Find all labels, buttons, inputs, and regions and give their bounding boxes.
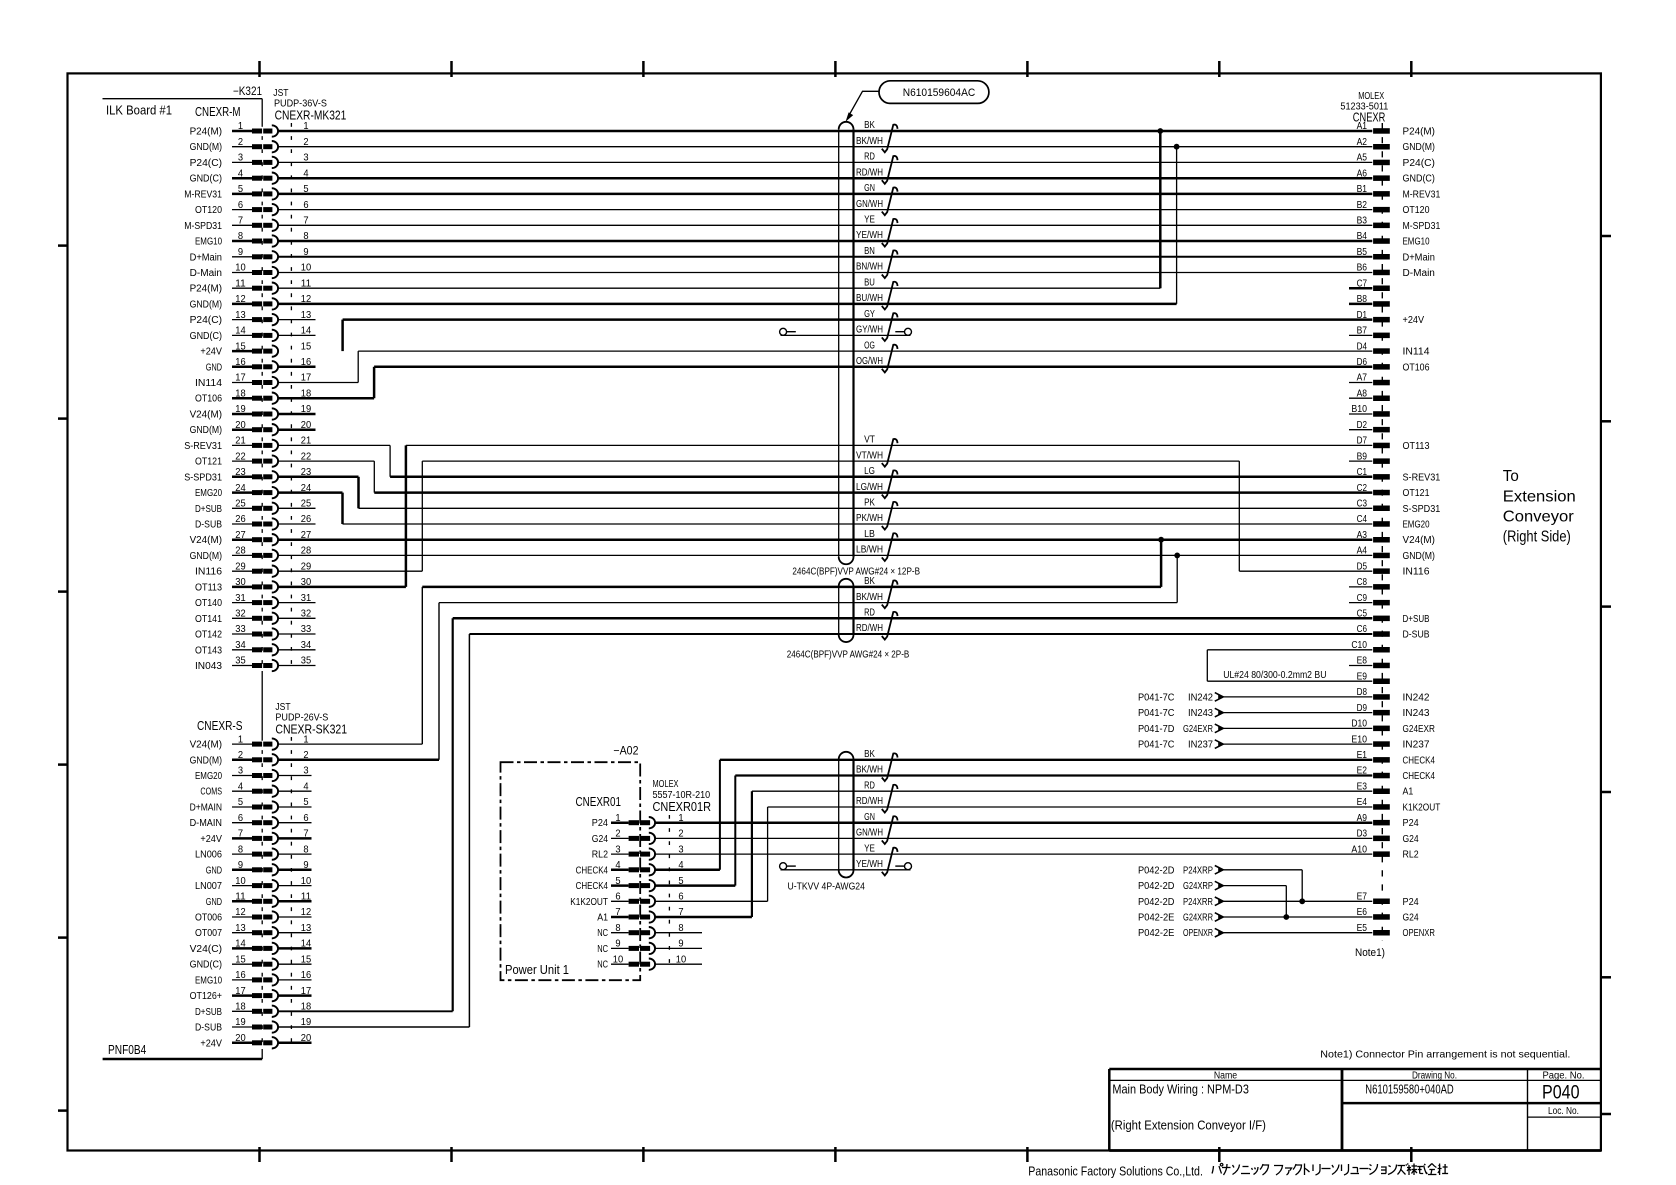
CNEXR-S pin 10 stub wire xyxy=(278,885,312,887)
wire GY +24V xyxy=(343,318,1373,321)
svg-text:LG/WH: LG/WH xyxy=(856,482,883,493)
riser CNEXR-S pin1 V24(M) to 2P BK row xyxy=(421,587,423,744)
svg-text:BU: BU xyxy=(864,277,875,288)
CNEXR-S pin 13 stub wire xyxy=(278,932,312,934)
svg-text:GND(M): GND(M) xyxy=(1403,142,1435,153)
svg-text:D+Main: D+Main xyxy=(190,252,222,263)
border tick marks xyxy=(258,61,261,77)
svg-text:IN243: IN243 xyxy=(1403,708,1430,719)
svg-text:COMS: COMS xyxy=(200,787,222,798)
twisted pair mark rows 27-28 xyxy=(882,533,898,561)
svg-text:UL#24 80/300-0.2mm2 BU: UL#24 80/300-0.2mm2 BU xyxy=(1223,670,1326,681)
svg-text:Power Unit 1: Power Unit 1 xyxy=(505,963,569,977)
twisted pair mark rows 32-33 xyxy=(882,612,898,640)
CNEXR01R pin 9 stub wire xyxy=(655,947,702,949)
CNEXR-S pin 4 stub wire xyxy=(278,790,312,792)
svg-text:RD/WH: RD/WH xyxy=(856,167,883,178)
CNEXR01R mating dashed line xyxy=(668,815,670,972)
wire G24EXR wire xyxy=(1224,727,1373,729)
wire RD(4P) A1 xyxy=(752,790,1372,792)
Power Unit 1 dash-dot box -A02 xyxy=(501,762,641,980)
svg-text:OT121: OT121 xyxy=(195,457,222,468)
svg-text:P041-7D: P041-7D xyxy=(1138,724,1174,735)
riser CHECK4 pin5 to 4P BK/WH row xyxy=(734,776,736,886)
svg-text:OG/WH: OG/WH xyxy=(856,356,883,367)
svg-text:BK: BK xyxy=(864,749,875,760)
wire RD/WH GND(C) xyxy=(278,177,1373,180)
svg-text:CHECK4: CHECK4 xyxy=(576,865,609,876)
svg-text:GND(M): GND(M) xyxy=(190,551,222,562)
CNEXR-S pin 9 stub wire xyxy=(278,869,312,872)
svg-text:P24(C): P24(C) xyxy=(190,315,222,326)
svg-text:Name: Name xyxy=(1214,1070,1238,1081)
svg-text:VT: VT xyxy=(864,435,875,446)
wire YE/WH EMG10 xyxy=(278,240,1373,243)
svg-text:EMG20: EMG20 xyxy=(1403,520,1430,531)
wire CNEXR01R pin6 K1K2OUT xyxy=(655,900,768,902)
svg-text:RD/WH: RD/WH xyxy=(856,796,883,807)
cable sheath 12P cable xyxy=(838,129,840,557)
svg-text:U-TKVV 4P-AWG24: U-TKVV 4P-AWG24 xyxy=(788,880,866,892)
wire C10 wire xyxy=(1207,649,1372,651)
CNEXR-M pin 31 stub wire xyxy=(278,602,316,604)
CNEXR-M pin 13 stub wire xyxy=(278,319,316,321)
svg-text:+24V: +24V xyxy=(200,1038,222,1049)
wire YE M-SPD31 xyxy=(278,224,1373,226)
svg-text:N610159604AC: N610159604AC xyxy=(903,87,976,99)
callout leader arrow xyxy=(848,91,879,117)
riser CNEXR-S pin19 D-SUB to 2P RD/WH row xyxy=(468,634,470,1027)
twisted pair mark rows 5-6 xyxy=(882,187,898,215)
wire CNEXR-S pin1 V24(M) xyxy=(278,743,423,745)
title block xyxy=(1109,1068,1601,1071)
svg-text:OT113: OT113 xyxy=(1403,441,1430,452)
junction dot GND(M) row2 xyxy=(1174,144,1180,150)
wire CNEXR01R pin4 CHECK4 xyxy=(655,869,720,872)
svg-text:OT126+: OT126+ xyxy=(190,991,223,1002)
wire E7 P24 wire xyxy=(1224,900,1373,902)
svg-text:OT106: OT106 xyxy=(1403,362,1430,373)
wire GN/WH OT120 xyxy=(278,209,1373,211)
svg-text:GY/WH: GY/WH xyxy=(856,325,883,336)
svg-text:YE: YE xyxy=(864,215,875,226)
riser CNEXR-S pin18 D+SUB to 2P RD row xyxy=(452,618,454,1011)
svg-text:CNEXR-MK321: CNEXR-MK321 xyxy=(275,107,347,122)
riser K1K2OUT pin6 to 4P RD/WH row xyxy=(767,807,769,901)
CNEXR-S pin 3 stub wire xyxy=(278,775,312,777)
wire IN116 wire xyxy=(278,570,423,572)
twisted pair mark rows 25-26 xyxy=(882,502,898,530)
svg-text:G24XRR: G24XRR xyxy=(1183,913,1213,924)
svg-text:15: 15 xyxy=(301,340,312,352)
svg-text:GND: GND xyxy=(206,362,222,373)
wire BU P24(M) xyxy=(278,287,1161,289)
wire LG/WH OT121 xyxy=(374,491,1372,494)
svg-text:LN006: LN006 xyxy=(195,850,222,861)
svg-text:BK: BK xyxy=(864,576,875,587)
CNEXR stub wire row C8 xyxy=(1349,586,1372,588)
svg-text:P24(C): P24(C) xyxy=(190,158,222,169)
svg-text:OT141: OT141 xyxy=(195,614,222,625)
svg-text:OT120: OT120 xyxy=(1403,205,1430,216)
CNEXR-S pin 11 stub wire xyxy=(278,900,312,903)
svg-text:MOLEX: MOLEX xyxy=(653,779,679,790)
svg-text:OT106: OT106 xyxy=(195,394,222,405)
wire RD/WH(2P) D-SUB xyxy=(469,633,1372,635)
svg-text:P24(M): P24(M) xyxy=(190,284,222,295)
svg-text:G24EXR: G24EXR xyxy=(1183,724,1213,735)
svg-text:CHECK4: CHECK4 xyxy=(1403,755,1436,766)
twisted pair mark rows 11-12 xyxy=(882,282,898,310)
CNEXR-S pin 17 stub wire xyxy=(278,994,312,997)
svg-text:P042-2E: P042-2E xyxy=(1138,928,1175,939)
twisted pair mark rows 13-14 xyxy=(882,313,898,341)
svg-text:NC: NC xyxy=(597,944,608,955)
svg-text:P042-2E: P042-2E xyxy=(1138,913,1175,924)
svg-text:2464C(BPF)VVP AWG#24 × 2P-B: 2464C(BPF)VVP AWG#24 × 2P-B xyxy=(787,650,910,661)
drop EMG20 pin24 to PK/WH row xyxy=(341,493,344,524)
wire LG S-REV31 xyxy=(390,476,1372,479)
svg-text:D+SUB: D+SUB xyxy=(195,1007,222,1018)
svg-text:D-SUB: D-SUB xyxy=(1403,630,1430,641)
twisted pair mark rows 30-31 xyxy=(882,580,898,608)
wire VT OT113 xyxy=(278,444,390,446)
CNEXR-M pin 33 stub wire xyxy=(278,633,316,635)
CNEXR stub wire row D2 xyxy=(1349,429,1372,431)
svg-text:OG: OG xyxy=(864,340,875,351)
join GND(M) row2 to BU/WH row12 xyxy=(1176,147,1178,304)
svg-text:D+MAIN: D+MAIN xyxy=(190,803,222,814)
junction dot V24(M) row27 xyxy=(1158,537,1164,543)
junction dot G24XRP/G24XRR xyxy=(1283,914,1289,920)
svg-text:Drawing No.: Drawing No. xyxy=(1412,1070,1457,1081)
svg-text:IN243: IN243 xyxy=(1188,708,1213,719)
svg-text:A1: A1 xyxy=(597,913,608,924)
twisted pair mark rows 23-24 xyxy=(882,470,898,498)
svg-text:JST: JST xyxy=(275,702,290,713)
svg-text:GND: GND xyxy=(206,897,222,908)
svg-text:IN043: IN043 xyxy=(195,661,222,672)
CNEXR stub wire row B7 xyxy=(1349,334,1372,336)
svg-text:D-SUB: D-SUB xyxy=(195,520,222,531)
svg-text:IN114: IN114 xyxy=(195,378,222,389)
CNEXR stub wire row B9 xyxy=(1349,460,1372,462)
svg-text:OPENXR: OPENXR xyxy=(1403,928,1435,939)
svg-text:EMG20: EMG20 xyxy=(195,488,222,499)
company name Japanese text (vector strokes) xyxy=(1212,1163,1448,1175)
svg-text:RD: RD xyxy=(864,780,875,791)
svg-text:P042-2D: P042-2D xyxy=(1138,881,1174,892)
twisted pair mark rows 45-46 xyxy=(882,816,898,844)
svg-text:P042-2D: P042-2D xyxy=(1138,865,1174,876)
wire BN/WH D-Main xyxy=(278,272,1373,274)
riser IN116 pin29 to VT/WH row xyxy=(421,461,423,571)
twisted pair mark rows 21-22 xyxy=(882,439,898,467)
svg-text:G24: G24 xyxy=(592,834,609,845)
wire GN/WH(4P) G24 xyxy=(655,837,1372,839)
wire LB V24(M) xyxy=(278,538,1373,541)
svg-text:IN116: IN116 xyxy=(1403,567,1430,578)
svg-text:BK/WH: BK/WH xyxy=(856,592,883,603)
svg-text:Loc. No.: Loc. No. xyxy=(1548,1106,1579,1117)
twisted pair mark rows 47-48 xyxy=(882,848,898,876)
svg-text:S-SPD31: S-SPD31 xyxy=(1403,504,1441,515)
svg-text:BN: BN xyxy=(864,246,875,257)
CNEXR mating dashed line xyxy=(1381,123,1383,941)
svg-text:EMG10: EMG10 xyxy=(1403,237,1430,248)
svg-text:V24(M): V24(M) xyxy=(190,410,222,421)
svg-text:RD: RD xyxy=(864,152,875,163)
CNEXR-S pin 12 stub wire xyxy=(278,916,312,918)
svg-text:GND(M): GND(M) xyxy=(190,755,222,766)
svg-text:+24V: +24V xyxy=(200,347,222,358)
loop C10 to E9 xyxy=(1206,650,1208,681)
svg-text:V24(M): V24(M) xyxy=(1403,535,1435,546)
svg-text:LB/WH: LB/WH xyxy=(856,545,883,556)
svg-text:GND(M): GND(M) xyxy=(190,425,222,436)
wire VT/WH IN116 xyxy=(422,460,1239,462)
wire P24XRP wire xyxy=(1224,869,1303,871)
wire IN243 wire xyxy=(1224,712,1373,714)
join GND(M) row28 to 2P BK/WH row31 xyxy=(1176,555,1178,602)
svg-text:D+SUB: D+SUB xyxy=(1403,614,1430,625)
wire E5 OPENXR wire xyxy=(1224,932,1373,934)
CNEXR stub wire row E8 xyxy=(1349,665,1372,667)
riser CNEXR-S pin2 GND(M) to 2P BK/WH row xyxy=(438,603,440,760)
svg-text:P041-7C: P041-7C xyxy=(1138,740,1174,751)
riser A1 pin7 to 4P RD row xyxy=(751,791,753,917)
join V24(M) row27 to 2P BK row30 xyxy=(1160,540,1163,587)
svg-text:Panasonic Factory Solutions Co: Panasonic Factory Solutions Co.,Ltd. xyxy=(1028,1163,1203,1178)
CNEXR stub wire row B10 xyxy=(1349,413,1372,415)
svg-text:GN: GN xyxy=(864,812,875,823)
CNEXR-M pin 16 stub wire xyxy=(278,366,316,369)
svg-text:OT007: OT007 xyxy=(195,928,222,939)
svg-text:P24XRR: P24XRR xyxy=(1183,897,1213,908)
svg-text:OT113: OT113 xyxy=(195,582,222,593)
svg-text:IN114: IN114 xyxy=(1403,347,1430,358)
svg-text:N610159580+040AD: N610159580+040AD xyxy=(1365,1083,1453,1097)
svg-text:RD/WH: RD/WH xyxy=(856,623,883,634)
CNEXR stub wire row C9 xyxy=(1349,602,1372,604)
join P24(M) row1 to BU row11 xyxy=(1159,131,1162,288)
svg-text:+24V: +24V xyxy=(1403,315,1425,326)
svg-text:(Right Extension Conveyor I/F): (Right Extension Conveyor I/F) xyxy=(1111,1118,1266,1133)
svg-text:GND(C): GND(C) xyxy=(190,331,222,342)
wire BK/WH GND(M) xyxy=(278,146,1373,148)
svg-text:M-SPD31: M-SPD31 xyxy=(1403,221,1441,232)
svg-text:EMG20: EMG20 xyxy=(195,771,222,782)
svg-text:CNEXR01: CNEXR01 xyxy=(576,794,622,809)
svg-text:GND(M): GND(M) xyxy=(190,142,222,153)
wire LG/WH OT121 xyxy=(278,491,343,494)
svg-text:IN242: IN242 xyxy=(1188,692,1213,703)
svg-text:LN007: LN007 xyxy=(195,881,222,892)
CNEXR-S pin 15 stub wire xyxy=(278,963,312,965)
wire GN(4P) P24 xyxy=(655,821,1372,824)
wire BK/WH(4P) CHECK4 xyxy=(735,774,1372,776)
svg-text:2464C(BPF)VVP AWG#24 × 12P-B: 2464C(BPF)VVP AWG#24 × 12P-B xyxy=(792,567,920,578)
CNEXR-M pin 32 stub wire xyxy=(278,617,316,619)
CNEXR-S pin 5 stub wire xyxy=(278,806,312,808)
twisted pair mark rows 1-2 xyxy=(882,125,898,153)
junction dot P24XRP/P24XRR xyxy=(1299,898,1305,904)
svg-text:OT006: OT006 xyxy=(195,913,222,924)
svg-text:CNEXR-M: CNEXR-M xyxy=(195,104,241,119)
svg-text:BK/WH: BK/WH xyxy=(856,765,883,776)
svg-text:D-Main: D-Main xyxy=(1403,268,1435,279)
wire BK(4P) CHECK4 xyxy=(720,759,1372,761)
svg-text:PNF0B4: PNF0B4 xyxy=(108,1043,146,1057)
svg-text:P24: P24 xyxy=(1403,897,1420,908)
wire CNEXR01R pin7 A1 xyxy=(655,916,752,919)
svg-text:OT140: OT140 xyxy=(195,598,222,609)
CNEXR-S pin 16 stub wire xyxy=(278,979,312,981)
svg-text:GND(M): GND(M) xyxy=(1403,551,1435,562)
svg-text:A1: A1 xyxy=(1403,787,1414,798)
CNEXR-M pin 35 stub wire xyxy=(278,665,316,667)
svg-text:CNEXR-SK321: CNEXR-SK321 xyxy=(275,722,347,737)
riser CHECK4 pin4 to 4P BK row xyxy=(719,760,721,870)
CNEXR01R pin 8 stub wire xyxy=(655,932,702,934)
CNEXR-S mating dashed line xyxy=(290,737,292,1049)
svg-text:BK: BK xyxy=(864,120,875,131)
svg-text:D-Main: D-Main xyxy=(190,268,222,279)
svg-text:IN242: IN242 xyxy=(1403,692,1430,703)
wire BN D+Main xyxy=(278,256,1373,258)
wire YE(4P) RL2 xyxy=(655,853,1372,855)
cut wire with hooks row 14 xyxy=(781,334,911,336)
svg-text:RD: RD xyxy=(864,608,875,619)
CNEXR-M pin 14 stub wire xyxy=(278,334,316,336)
svg-text:EMG10: EMG10 xyxy=(195,237,222,248)
svg-text:K1K2OUT: K1K2OUT xyxy=(570,897,608,908)
svg-text:D+SUB: D+SUB xyxy=(195,504,222,515)
svg-text:Main Body Wiring : NPM-D3: Main Body Wiring : NPM-D3 xyxy=(1112,1082,1249,1097)
wire LB/WH GND(M) xyxy=(278,554,1373,556)
svg-text:VT/WH: VT/WH xyxy=(856,450,883,461)
svg-text:P24: P24 xyxy=(1403,818,1420,829)
svg-text:D+Main: D+Main xyxy=(1403,252,1435,263)
wire BU/WH GND(M) xyxy=(278,303,1177,306)
CNEXR-M pin 20 stub wire xyxy=(278,428,316,431)
cut wire with hooks row 48 xyxy=(781,869,911,871)
CNEXR01R pin 10 stub wire xyxy=(655,963,702,965)
wire IN116 wire xyxy=(1239,570,1372,572)
svg-text:(Right Side): (Right Side) xyxy=(1503,529,1571,546)
svg-text:P24XRP: P24XRP xyxy=(1183,865,1213,876)
svg-text:CNEXR-S: CNEXR-S xyxy=(197,718,243,733)
svg-text:−A02: −A02 xyxy=(613,746,638,758)
twisted pair mark rows 41-42 xyxy=(882,753,898,781)
svg-text:G24EXR: G24EXR xyxy=(1403,724,1435,735)
svg-text:D-SUB: D-SUB xyxy=(195,1023,222,1034)
svg-text:GN: GN xyxy=(864,183,875,194)
cable sheath 2P cable xyxy=(838,586,840,635)
wire VT OT113 xyxy=(406,444,1372,446)
svg-text:IN116: IN116 xyxy=(195,567,222,578)
wire OG/WH OT106 xyxy=(374,366,1372,369)
wire E6 G24 wire xyxy=(1224,916,1373,918)
svg-text:Page. No.: Page. No. xyxy=(1543,1070,1585,1081)
svg-text:S-REV31: S-REV31 xyxy=(1403,472,1441,483)
svg-text:BU/WH: BU/WH xyxy=(856,293,883,304)
svg-text:RL2: RL2 xyxy=(1403,850,1420,861)
twisted pair mark rows 3-4 xyxy=(882,156,898,184)
svg-text:GND: GND xyxy=(206,865,222,876)
svg-text:EMG10: EMG10 xyxy=(195,975,222,986)
riser OT113 pin30 to VT row xyxy=(405,445,408,587)
twisted pair mark rows 7-8 xyxy=(882,219,898,247)
svg-text:PK: PK xyxy=(864,498,875,509)
svg-text:G24: G24 xyxy=(1403,834,1420,845)
svg-text:−K321: −K321 xyxy=(233,86,262,98)
svg-text:OT120: OT120 xyxy=(195,205,222,216)
svg-text:Extension: Extension xyxy=(1503,489,1576,506)
svg-text:OPENXR: OPENXR xyxy=(1183,928,1213,939)
svg-text:RL2: RL2 xyxy=(592,850,609,861)
svg-text:V24(M): V24(M) xyxy=(190,740,222,751)
svg-text:MOLEX: MOLEX xyxy=(1358,91,1384,102)
wire E9 UL#24 wire xyxy=(1207,680,1372,682)
CNEXR-S pin 8 stub wire xyxy=(278,853,312,855)
riser +24V pin15 to GY row xyxy=(341,320,344,352)
wire BK P24(M) xyxy=(278,130,1373,133)
junction dot P24(M) row1 xyxy=(1157,128,1163,134)
svg-text:GND(M): GND(M) xyxy=(190,299,222,310)
drop IN116 VT/WH row22 to D5 row29 xyxy=(1238,461,1240,571)
svg-text:IN237: IN237 xyxy=(1403,740,1430,751)
wire RD/WH(4P) K1K2OUT xyxy=(768,806,1373,808)
wire IN114 pin wire xyxy=(278,382,358,384)
drop P24XRP to E7 wire xyxy=(1301,870,1303,902)
svg-text:M-REV31: M-REV31 xyxy=(184,189,222,200)
svg-text:P24(C): P24(C) xyxy=(1403,158,1435,169)
wire LG S-REV31 xyxy=(278,476,359,479)
svg-text:PK/WH: PK/WH xyxy=(856,513,883,524)
twisted pair mark rows 9-10 xyxy=(882,250,898,278)
CNEXR stub wire row A8 xyxy=(1349,397,1372,399)
svg-text:GN/WH: GN/WH xyxy=(856,199,883,210)
svg-text:M-SPD31: M-SPD31 xyxy=(184,221,222,232)
svg-text:BN/WH: BN/WH xyxy=(856,262,883,273)
CNEXR-M pin 26 stub wire xyxy=(278,523,316,525)
svg-text:GND(C): GND(C) xyxy=(190,174,222,185)
callout N610159604AC xyxy=(879,81,989,104)
svg-text:YE/WH: YE/WH xyxy=(856,230,883,241)
svg-text:To: To xyxy=(1503,468,1519,485)
svg-text:GND(C): GND(C) xyxy=(190,960,222,971)
svg-text:NC: NC xyxy=(597,928,608,939)
wire CNEXR-S pin2 GND(M) xyxy=(278,759,439,762)
svg-text:YE: YE xyxy=(864,843,875,854)
wire G24XRP wire xyxy=(1224,885,1287,887)
svg-text:IN237: IN237 xyxy=(1188,740,1213,751)
svg-text:YE/WH: YE/WH xyxy=(856,859,883,870)
svg-text:ILK Board #1: ILK Board #1 xyxy=(106,104,172,118)
riser OT106 pin18 to OG/WH row xyxy=(373,367,376,398)
svg-text:CHECK4: CHECK4 xyxy=(1403,771,1436,782)
svg-text:CHECK4: CHECK4 xyxy=(576,881,609,892)
K321 dashed line through CNEXR-S connector xyxy=(261,737,263,1049)
K321 dashed line through CNEXR-M connector xyxy=(261,123,263,671)
wire BK/WH(2P) GND(M) xyxy=(439,602,1177,604)
cable sheath 4P cable xyxy=(838,759,840,870)
svg-text:+24V: +24V xyxy=(200,834,222,845)
svg-text:P042-2D: P042-2D xyxy=(1138,897,1174,908)
CNEXR stub wire row C7 xyxy=(1349,287,1372,290)
drop G24XRP to E6 wire xyxy=(1285,886,1287,917)
